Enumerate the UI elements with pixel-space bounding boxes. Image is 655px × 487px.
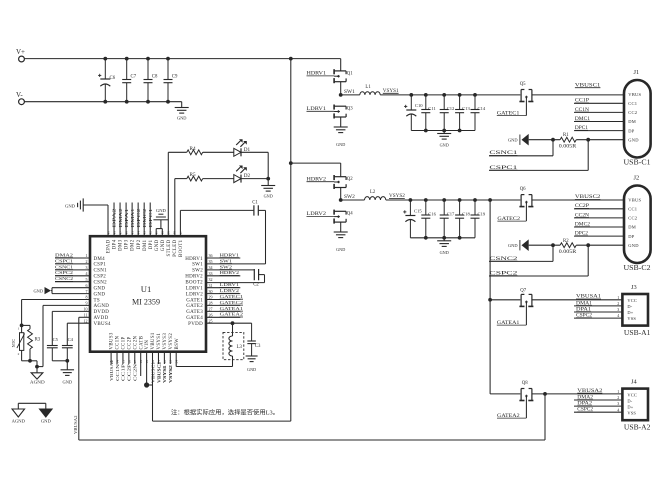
svg-text:SW2: SW2 (344, 194, 355, 200)
wire pin17 riser / net label CC2N (134, 352, 136, 364)
svg-text:TS: TS (94, 298, 100, 303)
svg-text:注：根据实际应用，选择是否使用L3。: 注：根据实际应用，选择是否使用L3。 (171, 409, 279, 417)
wire VSYS2 rail (386, 199, 521, 201)
svg-text:CATB: CATB (139, 336, 144, 350)
junction CSNC2 (551, 243, 555, 247)
wire to Q7 (490, 299, 520, 301)
wire pin21 riser / net label VBUSC2 (157, 352, 159, 364)
net label CSPC1 / wire pin2 (55, 263, 90, 265)
svg-text:R3: R3 (35, 337, 41, 342)
svg-text:0.005R: 0.005R (559, 250, 577, 255)
svg-text:6: 6 (86, 283, 88, 288)
net label DPA2 riser (113, 203, 115, 237)
svg-text:Q6: Q6 (520, 187, 526, 192)
svg-text:L3: L3 (237, 345, 243, 350)
net label GATEA2 (525, 400, 527, 418)
net label CSPC2 / wire pin4 (55, 275, 90, 277)
wire pin15 riser / net label CC1P (122, 352, 124, 364)
net label GATEA2 / wire pin26 (206, 316, 240, 318)
svg-text:7: 7 (86, 289, 88, 294)
net label CSNC1 / wire (489, 155, 553, 157)
svg-text:29: 29 (209, 295, 213, 300)
svg-text:2: 2 (617, 301, 619, 306)
svg-text:VSYS1: VSYS1 (157, 333, 162, 350)
net label CC2P / wire (574, 208, 624, 210)
wire V+ rail (24, 58, 340, 60)
svg-text:CSNC1: CSNC1 (55, 264, 74, 269)
junction V+ rail (289, 57, 293, 61)
thermistor NTC (21, 325, 23, 332)
junction CSPC1 (586, 138, 590, 142)
svg-text:LDRV2: LDRV2 (186, 292, 203, 297)
svg-text:D+: D+ (627, 310, 633, 315)
capacitor C1 (253, 205, 255, 215)
svg-text:HDRV2: HDRV2 (220, 270, 240, 275)
svg-text:C6: C6 (110, 76, 116, 81)
svg-text:VIN: VIN (145, 340, 150, 350)
net label DPC2 / wire (574, 235, 624, 237)
net label DMC2 / wire (574, 226, 624, 228)
svg-text:GND: GND (41, 419, 52, 424)
transistor Q6 (520, 195, 522, 207)
svg-text:R1: R1 (563, 133, 569, 138)
svg-text:5: 5 (86, 277, 88, 282)
ground GND LEDs (261, 185, 275, 187)
wire SW2 pin34 (206, 269, 254, 271)
svg-text:GND: GND (155, 239, 160, 251)
wire EPAD to GND (83, 204, 108, 206)
wire PCLED riser (174, 179, 176, 237)
svg-text:C11: C11 (428, 106, 436, 111)
svg-text:10: 10 (84, 307, 88, 312)
svg-text:C3: C3 (255, 344, 261, 349)
svg-text:LDRV2: LDRV2 (220, 288, 240, 293)
svg-text:2: 2 (617, 395, 619, 400)
svg-text:39: 39 (167, 231, 171, 235)
svg-text:GATE1: GATE1 (186, 298, 203, 303)
wire R5 row (175, 178, 187, 180)
net label DPC1 / wire (574, 130, 624, 132)
wire BOOT1 riser (179, 210, 181, 236)
transistor Q3 (334, 105, 346, 107)
svg-text:DP: DP (628, 234, 634, 239)
svg-text:DVDD: DVDD (94, 310, 110, 315)
resistor R4 (187, 150, 203, 155)
svg-text:36: 36 (209, 253, 213, 258)
svg-text:AGND: AGND (30, 380, 46, 385)
svg-text:27: 27 (209, 307, 213, 312)
svg-text:VSS: VSS (627, 411, 636, 416)
junction CSNC1 (551, 138, 555, 142)
svg-text:38: 38 (173, 231, 177, 235)
svg-text:C18: C18 (462, 211, 470, 216)
net label GATEA1 (525, 306, 527, 325)
svg-text:LDRV1: LDRV1 (186, 286, 203, 291)
capacitor C10 (410, 95, 412, 110)
svg-text:DP2: DP2 (137, 239, 142, 249)
capacitor C2 (253, 269, 255, 280)
svg-text:Q4: Q4 (347, 212, 353, 217)
net label DMA1 / wire (574, 305, 622, 307)
net label DMA2 riser (119, 203, 121, 237)
capacitor C8 (147, 59, 149, 80)
net label CC1P / wire (574, 102, 624, 104)
net label DPA1 / wire (574, 311, 622, 313)
wire VIN loop from V+ rail (290, 59, 292, 422)
wire VSYS2 rail to Q8 (490, 393, 520, 395)
net label DPC1 riser (149, 203, 151, 237)
svg-text:EPAD: EPAD (107, 239, 112, 253)
svg-text:VCC: VCC (627, 298, 637, 303)
capacitor C17 (443, 200, 445, 215)
svg-text:VSYS3: VSYS3 (163, 333, 168, 350)
svg-text:VSYS2: VSYS2 (168, 365, 173, 383)
resistor R3 (29, 325, 31, 329)
wire NTC/R3 bottoms (22, 360, 37, 362)
ground GND caps bus 2 (443, 238, 445, 241)
svg-text:GND: GND (63, 379, 73, 384)
svg-text:1: 1 (86, 253, 88, 258)
net label DMA1 riser (131, 203, 133, 237)
transistor Q2 (334, 176, 346, 178)
net label HDRV1 / wire pin36 (206, 257, 240, 259)
svg-text:1: 1 (617, 295, 619, 300)
svg-text:HDRV1: HDRV1 (185, 257, 203, 262)
svg-text:C9: C9 (172, 75, 178, 80)
junction VBUSA2 branch (543, 392, 547, 396)
svg-text:GND: GND (336, 247, 345, 252)
wire DVDD pin10 to C5 (52, 310, 90, 312)
inductor L2 (341, 199, 365, 201)
LED D1 (234, 148, 241, 156)
svg-text:0.005R: 0.005R (559, 145, 577, 150)
svg-text:HDRV1: HDRV1 (220, 252, 240, 257)
svg-text:VBUSC2: VBUSC2 (156, 362, 161, 383)
net label CC2N / wire (574, 217, 624, 219)
svg-text:C10: C10 (415, 103, 423, 108)
svg-text:8: 8 (86, 295, 88, 300)
svg-text:V+: V+ (16, 48, 25, 56)
transistor Q1 (334, 70, 346, 72)
svg-text:CC1P: CC1P (121, 363, 126, 381)
wire V+ to Q1 (340, 59, 342, 71)
svg-text:GATEA1: GATEA1 (220, 306, 244, 311)
svg-text:CC1N: CC1N (115, 363, 120, 381)
svg-text:AVDD: AVDD (94, 316, 109, 321)
junctions VSYS2 caps (409, 198, 413, 202)
svg-text:CSP1: CSP1 (94, 263, 107, 268)
wire R2 to J2 GND (576, 244, 624, 246)
capacitor C18 (459, 200, 461, 215)
svg-text:33: 33 (209, 271, 213, 276)
svg-text:CC1: CC1 (628, 101, 637, 106)
wire STLED riser (167, 152, 169, 236)
svg-text:USB-C1: USB-C1 (624, 159, 651, 167)
svg-text:CC2N: CC2N (133, 363, 138, 381)
junction CSPC2 (586, 243, 590, 247)
svg-text:GND: GND (94, 286, 106, 291)
resistor R2 0.005R (560, 243, 576, 248)
wire pin13 riser / net label VBUSA1 (110, 352, 112, 364)
svg-text:CC2P: CC2P (127, 363, 132, 381)
ground GND arrow left of U1 (45, 287, 52, 294)
wire VBUSA2 return rail (544, 394, 546, 440)
inductor L1 (341, 94, 360, 96)
svg-text:C7: C7 (131, 75, 137, 80)
wire V- rail (24, 101, 181, 103)
svg-text:3: 3 (617, 401, 619, 406)
svg-text:U1: U1 (141, 284, 152, 294)
svg-text:SW2: SW2 (192, 269, 203, 274)
wire L3 return to BSW pin24 (232, 356, 234, 367)
svg-text:J2: J2 (634, 175, 640, 182)
svg-text:GND: GND (336, 142, 345, 147)
svg-text:SW2: SW2 (220, 264, 233, 269)
net label CSPC1 / wire (489, 169, 588, 171)
svg-text:Q3: Q3 (347, 107, 353, 112)
svg-text:C2: C2 (253, 283, 259, 288)
capacitor C3 (251, 323, 253, 341)
svg-text:DMA1: DMA1 (130, 209, 135, 228)
svg-text:DMC2: DMC2 (142, 209, 147, 228)
resistor R1 0.005R (560, 137, 576, 142)
wire Q4 to GND (340, 222, 342, 232)
svg-text:DM3: DM3 (119, 239, 124, 251)
svg-text:1: 1 (18, 327, 20, 331)
connector J4 USB-A2 (622, 389, 648, 421)
wire C2 to BOOT2 (259, 274, 265, 276)
svg-text:C8: C8 (152, 75, 158, 80)
svg-text:J3: J3 (631, 284, 637, 291)
ground GND input filter (181, 102, 183, 108)
wire R1 to J1 GND (576, 139, 624, 141)
svg-text:SW1: SW1 (344, 89, 355, 95)
ground GND standalone (45, 403, 47, 409)
svg-text:HDRV2: HDRV2 (185, 275, 203, 280)
capacitor C7 (126, 59, 128, 80)
svg-text:CSPC2: CSPC2 (55, 270, 74, 275)
wire VIN pin19 riser to junction (146, 352, 148, 385)
svg-text:USB-A2: USB-A2 (624, 424, 651, 431)
capacitor C19 (474, 200, 476, 215)
net label CSPC2 / wire (489, 275, 588, 277)
junctions VSYS1 caps (409, 93, 413, 97)
svg-text:2: 2 (18, 352, 20, 356)
svg-text:Q2: Q2 (347, 177, 353, 182)
svg-text:DM: DM (628, 225, 636, 230)
svg-text:C19: C19 (478, 211, 486, 216)
svg-text:GND: GND (33, 289, 43, 294)
capacitor C5 (51, 345, 53, 347)
capacitor C16 (425, 200, 427, 215)
svg-text:J1: J1 (634, 69, 640, 76)
junction PVDD/L3 (231, 321, 235, 325)
svg-text:NTC: NTC (11, 339, 16, 348)
svg-text:CC2: CC2 (628, 110, 637, 115)
svg-text:CSN1: CSN1 (94, 269, 108, 274)
svg-text:L2: L2 (370, 190, 376, 195)
junction D2/D1 (266, 177, 270, 181)
svg-text:STLED: STLED (167, 239, 172, 256)
svg-text:DP3: DP3 (125, 239, 130, 249)
svg-text:C12: C12 (447, 106, 455, 111)
svg-text:CC1P: CC1P (122, 336, 127, 349)
transistor Q5 (520, 90, 522, 102)
net label CSNC2 / wire pin5 (55, 281, 90, 283)
net label CSNC1 / wire pin3 (55, 269, 90, 271)
svg-text:GND: GND (161, 239, 166, 251)
junction Q2 feed (289, 161, 293, 165)
svg-text:GND: GND (156, 208, 167, 213)
svg-text:CSN2: CSN2 (94, 281, 108, 286)
wire Q5 to J1 VBUS (532, 94, 624, 96)
svg-text:DM1: DM1 (143, 239, 148, 251)
LED D2 (234, 175, 241, 183)
svg-text:GATE4: GATE4 (186, 316, 203, 321)
svg-text:VSYS1: VSYS1 (162, 365, 167, 383)
svg-text:VBUS3: VBUS3 (110, 332, 115, 349)
wire pin23 riser / net label VSYS2 (169, 352, 171, 364)
svg-text:DP4: DP4 (113, 239, 118, 249)
capacitor C13 (459, 95, 461, 110)
wire BOOT2 pin32 (206, 282, 265, 284)
wire GND to R1 (529, 139, 560, 141)
svg-text:34: 34 (209, 265, 213, 270)
net label DMA2 / wire pin1 (55, 257, 90, 259)
op-amp U1 (IC MI 2359) (90, 236, 206, 352)
svg-text:C5: C5 (53, 337, 59, 342)
wire pin22 riser / net label VSYS1 (163, 352, 165, 364)
svg-text:GND: GND (247, 367, 256, 372)
wire caps bottom bus 1 (411, 130, 475, 132)
node SW2 (339, 198, 343, 202)
svg-text:DPA2: DPA2 (112, 209, 117, 228)
transistor Q8 (520, 389, 522, 401)
capacitor C14 (474, 95, 476, 110)
svg-text:DPC1: DPC1 (148, 209, 153, 228)
ground GND below C3 (246, 355, 258, 357)
wire Q1 to SW1 node (340, 82, 342, 95)
svg-text:DPA1: DPA1 (124, 209, 129, 228)
wire grounds tie (18, 402, 46, 404)
net label CC1N / wire (574, 111, 624, 113)
svg-text:C16: C16 (428, 211, 436, 216)
net label GATEC1 (525, 101, 527, 115)
wire Q3 to GND (340, 117, 342, 127)
wire Q7 to J3 pin1 (532, 299, 622, 301)
svg-text:LDRV1: LDRV1 (220, 282, 240, 287)
connector J3 USB-A1 (622, 294, 648, 326)
svg-text:CC2P: CC2P (127, 336, 132, 349)
svg-text:USB-C2: USB-C2 (624, 264, 651, 272)
wire SW1 pin35 (206, 263, 266, 265)
svg-text:DMA2: DMA2 (118, 209, 123, 228)
svg-text:VBUS4: VBUS4 (94, 322, 112, 327)
net label DPA2 / wire (574, 405, 622, 407)
svg-text:GND: GND (440, 250, 449, 255)
svg-text:PVDD: PVDD (188, 322, 203, 327)
wire VSYS2 down rail (489, 200, 491, 394)
svg-text:GATE2: GATE2 (186, 304, 203, 309)
svg-text:GATEC1: GATEC1 (220, 294, 244, 299)
svg-text:Q5: Q5 (520, 82, 526, 87)
junction dots input caps (103, 57, 107, 61)
wire AVDD pin11 / net VBUSA2 riser (79, 316, 90, 318)
wire AGND pin9 (43, 304, 90, 306)
inductor L3 in dashed box (223, 332, 244, 359)
svg-text:C14: C14 (478, 106, 486, 111)
wire D2 row (241, 178, 268, 180)
svg-text:AGND: AGND (12, 419, 26, 424)
wire D1 to GND riser (241, 151, 268, 153)
net label DPA1 riser (125, 203, 127, 237)
net label CSPC2 / wire J4 (574, 411, 622, 413)
net label DMC1 / wire (574, 121, 624, 123)
ground AGND standalone (17, 403, 19, 409)
svg-text:GND: GND (508, 243, 518, 248)
capacitor C11 (425, 95, 427, 110)
svg-text:GND: GND (628, 137, 639, 142)
wire VBUS4 pin12 to C4 (67, 322, 90, 324)
svg-text:MI 2359: MI 2359 (132, 297, 160, 307)
svg-text:GATEA2: GATEA2 (220, 312, 244, 317)
resistor R5 (187, 176, 203, 181)
svg-text:4: 4 (617, 313, 619, 318)
svg-text:3: 3 (86, 265, 88, 270)
connector J1 USB-C1 (624, 80, 651, 158)
svg-text:VBUS: VBUS (628, 197, 641, 202)
net label LDRV1 / wire pin31 (206, 287, 240, 289)
svg-text:CSNC2: CSNC2 (55, 276, 74, 281)
ground AGND below R3 (31, 373, 43, 379)
svg-text:30: 30 (209, 289, 213, 294)
wire GND pins 6,7 (52, 287, 90, 289)
svg-text:VBUSA2: VBUSA2 (73, 416, 78, 435)
svg-text:GND: GND (440, 143, 449, 148)
wire PVDD pin25 (206, 322, 252, 324)
svg-text:C15: C15 (414, 209, 422, 214)
svg-text:J4: J4 (631, 379, 637, 386)
wire Q6 to J2 VBUS (532, 199, 624, 201)
net label GATEC1 / wire pin29 (206, 299, 240, 301)
wire C5/C4 bottoms (52, 360, 67, 362)
net label GATEC2 / wire pin28 (206, 304, 240, 306)
svg-text:VCC: VCC (627, 392, 637, 397)
svg-text:Q1: Q1 (347, 71, 353, 76)
svg-text:DM4: DM4 (94, 257, 106, 262)
svg-text:R5: R5 (190, 172, 196, 178)
junction VSYS2 branch (488, 198, 492, 202)
svg-text:BSW: BSW (175, 338, 180, 350)
svg-text:CC1: CC1 (628, 207, 637, 212)
capacitor C6 (104, 59, 106, 79)
svg-text:VSS: VSS (627, 316, 636, 321)
svg-text:Q8: Q8 (522, 381, 528, 386)
transistor Q7 (520, 294, 522, 306)
svg-text:VBUSA1: VBUSA1 (109, 360, 114, 381)
svg-text:31: 31 (209, 283, 213, 288)
wire TS pin8 to NTC network (22, 299, 90, 301)
wire R4 row (168, 151, 187, 153)
wire GND to R2 (529, 244, 560, 246)
svg-text:USB-A1: USB-A1 (624, 330, 651, 337)
svg-text:GATE3: GATE3 (186, 310, 203, 315)
svg-text:DMA2: DMA2 (55, 252, 74, 257)
ground GND below C4 (61, 369, 75, 371)
wire CATB pin18 riser (140, 352, 142, 376)
svg-text:R2: R2 (563, 239, 569, 244)
connector J2 USB-C2 (624, 186, 651, 264)
